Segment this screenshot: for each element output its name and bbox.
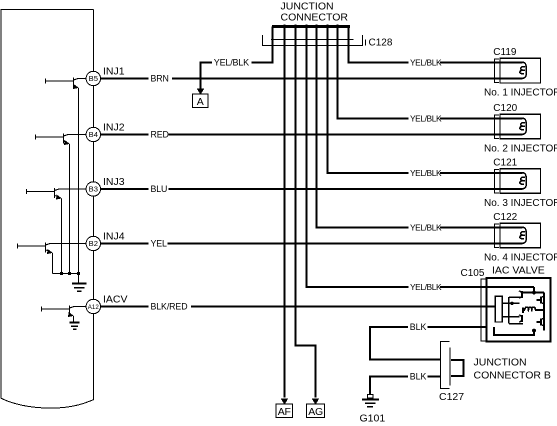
transistor Q2 bbox=[36, 134, 87, 274]
ECU pin B3 bbox=[86, 182, 100, 196]
svg-text:YEL/BLK: YEL/BLK bbox=[410, 168, 442, 178]
svg-text:BLK/RED: BLK/RED bbox=[151, 302, 188, 312]
destination box AG bbox=[307, 404, 325, 417]
wire BLK from G101 to C127 bbox=[370, 377, 440, 395]
ground (IACV driver) bbox=[70, 323, 80, 330]
junction connector B C127 bbox=[440, 342, 449, 389]
svg-text:C121: C121 bbox=[493, 158, 517, 169]
junction wire YEL/BLK to r4 bbox=[317, 24, 523, 227]
injector No. 2 INJECTOR bbox=[500, 114, 541, 139]
svg-text:BRN: BRN bbox=[151, 74, 169, 84]
ground G101 bbox=[362, 395, 379, 407]
svg-text:JUNCTION: JUNCTION bbox=[474, 357, 527, 369]
injector connector bracket C120 bbox=[495, 115, 499, 139]
junction wire YEL/BLK to r5 bbox=[307, 24, 535, 287]
junction wire to AF bbox=[284, 24, 286, 397]
svg-text:YEL/BLK: YEL/BLK bbox=[410, 58, 442, 68]
svg-text:CONNECTOR: CONNECTOR bbox=[281, 11, 349, 23]
injector connector bracket C121 bbox=[495, 169, 499, 193]
svg-text:INJ4: INJ4 bbox=[103, 231, 125, 243]
svg-text:A12: A12 bbox=[88, 304, 100, 311]
connector bracket C128 bbox=[262, 35, 362, 45]
svg-text:B4: B4 bbox=[89, 130, 98, 139]
svg-text:No. 1 INJECTOR: No. 1 INJECTOR bbox=[484, 87, 557, 98]
injector connector bracket C122 bbox=[495, 224, 499, 248]
ground (ECU common) bbox=[72, 274, 87, 292]
svg-text:No. 4 INJECTOR: No. 4 INJECTOR bbox=[484, 252, 557, 263]
svg-text:B2: B2 bbox=[89, 239, 98, 248]
wire BLU from pin to right bbox=[101, 188, 523, 190]
emitter ground rail bbox=[53, 273, 79, 275]
svg-text:B5: B5 bbox=[89, 74, 98, 83]
junction dots on rail bbox=[60, 272, 63, 275]
svg-text:C119: C119 bbox=[493, 47, 517, 58]
ECU pin B5 bbox=[86, 71, 100, 85]
ECU pin B2 bbox=[86, 236, 100, 250]
IACV connector bracket C105 bbox=[481, 279, 486, 341]
junction wire YEL/BLK to r3 bbox=[328, 24, 523, 173]
destination box AF bbox=[276, 404, 292, 417]
svg-text:G101: G101 bbox=[360, 413, 386, 425]
transistor Q3 bbox=[27, 188, 87, 274]
junction wire YEL/BLK to r2 bbox=[338, 24, 523, 118]
ECU pin A12 bbox=[86, 299, 100, 313]
destination box A bbox=[193, 94, 209, 108]
wire YEL from pin to right bbox=[101, 243, 523, 245]
svg-text:BLK: BLK bbox=[410, 372, 427, 382]
svg-text:B3: B3 bbox=[89, 185, 98, 194]
transistor Q5 bbox=[42, 306, 87, 322]
svg-text:INJ1: INJ1 bbox=[103, 66, 125, 78]
wire RED from pin to right bbox=[101, 134, 523, 136]
svg-text:CONNECTOR B: CONNECTOR B bbox=[474, 369, 551, 381]
svg-text:RED: RED bbox=[151, 130, 169, 140]
junction wire to A (YEL/BLK) bbox=[201, 27, 273, 89]
svg-text:C127: C127 bbox=[439, 391, 464, 403]
svg-text:YEL/BLK: YEL/BLK bbox=[410, 282, 442, 292]
svg-text:BLU: BLU bbox=[151, 184, 168, 194]
svg-text:IACV: IACV bbox=[103, 294, 128, 306]
wire BLK from IACV to C127 bbox=[370, 327, 487, 360]
transistor Q4 bbox=[18, 243, 87, 274]
svg-text:C122: C122 bbox=[493, 212, 517, 223]
svg-text:IAC VALVE: IAC VALVE bbox=[492, 265, 545, 277]
injector connector bracket C119 bbox=[495, 59, 499, 83]
injector No. 3 INJECTOR bbox=[500, 169, 541, 194]
transistor Q1 bbox=[46, 78, 87, 274]
IAC valve box bbox=[487, 278, 551, 342]
svg-text:YEL/BLK: YEL/BLK bbox=[410, 114, 442, 124]
IACV BLK internal path bbox=[494, 327, 534, 335]
svg-text:YEL: YEL bbox=[151, 239, 168, 249]
svg-text:INJ3: INJ3 bbox=[103, 176, 125, 188]
svg-text:YEL/BLK: YEL/BLK bbox=[410, 223, 442, 233]
svg-text:C128: C128 bbox=[369, 37, 393, 48]
svg-text:No. 3 INJECTOR: No. 3 INJECTOR bbox=[484, 198, 557, 209]
ECU box outline bbox=[1, 10, 93, 409]
svg-text:No. 2 INJECTOR: No. 2 INJECTOR bbox=[484, 143, 557, 154]
svg-text:INJ2: INJ2 bbox=[103, 122, 125, 134]
svg-text:AG: AG bbox=[308, 406, 323, 418]
svg-text:BLK: BLK bbox=[410, 322, 427, 332]
wire BRN from pin to right bbox=[101, 78, 523, 80]
IACV internal drive circuit bbox=[502, 287, 544, 331]
svg-text:AF: AF bbox=[278, 406, 291, 418]
wire BLK/RED from pin to right bbox=[101, 306, 496, 308]
svg-text:C120: C120 bbox=[493, 103, 517, 114]
arrow to A bbox=[197, 89, 205, 95]
ECU pin B4 bbox=[86, 127, 100, 141]
IACV motor winding block bbox=[495, 296, 502, 322]
injector No. 1 INJECTOR bbox=[500, 58, 541, 83]
svg-text:A: A bbox=[197, 96, 204, 108]
junction connector comb C128 bbox=[272, 25, 350, 28]
junction wire to AG bbox=[296, 24, 316, 397]
injector No. 4 INJECTOR bbox=[500, 223, 541, 248]
svg-text:YEL/BLK: YEL/BLK bbox=[214, 58, 249, 68]
svg-text:C105: C105 bbox=[461, 268, 485, 279]
junction wire YEL/BLK to r1 bbox=[349, 27, 523, 63]
